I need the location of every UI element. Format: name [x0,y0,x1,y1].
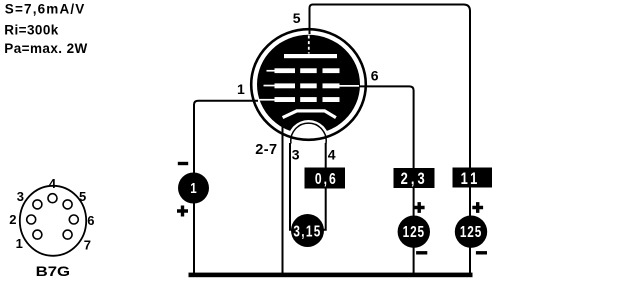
wire anode lower (box to meter to bus) [469,168,471,273]
voltmeter circle 1 (grid bias) [178,173,209,204]
anode lead dashed (inside tube) [308,36,310,54]
wire screen (pin 6 to 2,3-box column) [359,86,414,168]
wire heater pin 3 [290,143,293,230]
svg-text:1: 1 [237,81,245,97]
svg-text:B7G: B7G [36,263,71,279]
plus sign (anode) [472,202,483,213]
svg-text:6: 6 [87,213,94,228]
svg-text:1: 1 [190,180,196,197]
svg-text:125: 125 [403,223,425,240]
svg-text:Pa=max. 2W: Pa=max. 2W [4,41,87,56]
wire screen lower (box to meter to bus) [413,168,415,273]
svg-text:S=7,6mA/V: S=7,6mA/V [5,2,85,17]
svg-text:2,3: 2,3 [401,169,428,188]
svg-text:7: 7 [84,237,91,252]
svg-text:6: 6 [371,68,379,84]
B7G base outline [20,186,86,256]
svg-text:5: 5 [293,10,301,26]
B7G pin 1 [33,230,42,239]
ground bus wire (bottom) [189,273,473,278]
wire anode top (pin 5 to 11-box column) [310,5,471,169]
cathode chevron [283,111,336,118]
heater arc [291,123,326,143]
anode plate bar [284,54,337,58]
wire heater pin 4 lower (0,6 box to 3,15 meter) [322,189,326,230]
voltmeter circle 3,15 (heater voltage) [291,214,324,247]
wire cathode (pins 2-7 to bus) [282,126,284,273]
svg-text:3,15: 3,15 [293,223,321,240]
B7G pin 4 [48,194,57,203]
svg-text:2-7: 2-7 [255,142,277,158]
ammeter box 2,3 (screen current) [394,168,435,189]
minus sign (anode) [476,251,487,254]
B7G pin 7 [63,230,72,239]
svg-text:4: 4 [328,146,336,162]
grid g2 row (dashes, lead to pin 6) [264,83,360,88]
ammeter box 0,6 (heater current) [305,168,346,189]
ammeter box 11 (anode current) [453,168,493,189]
plus sign (grid) [177,206,188,217]
svg-text:0,6: 0,6 [315,170,338,188]
wire grid (pin 1 to left column) [194,101,258,273]
svg-text:11: 11 [461,169,481,188]
svg-text:2: 2 [9,212,16,227]
B7G pin 3 [33,200,42,209]
grid g3 row (dashes) [267,68,340,73]
svg-text:3: 3 [292,146,300,162]
grid g1 row (dashes, lead to pin 1) [259,97,340,102]
svg-text:Ri=300k: Ri=300k [4,22,58,37]
plus sign (screen) [414,202,425,213]
minus sign (grid) [178,162,188,165]
tube V1 electrode block (black) [257,35,360,134]
B7G pin 2 [27,215,36,224]
svg-text:5: 5 [79,189,86,204]
voltmeter circle 125 (screen voltage) [398,216,430,248]
wire heater pin 4 upper [325,143,327,168]
svg-text:4: 4 [49,176,57,191]
svg-text:3: 3 [17,189,24,204]
B7G pin 6 [69,215,78,224]
minus sign (screen) [416,251,427,254]
svg-text:125: 125 [460,223,482,240]
heater cutout (white) [288,120,330,162]
voltmeter circle 125 (anode voltage) [455,216,487,248]
svg-text:1: 1 [16,236,23,251]
B7G pin 5 [63,200,72,209]
tube V1 envelope circle [251,29,366,140]
